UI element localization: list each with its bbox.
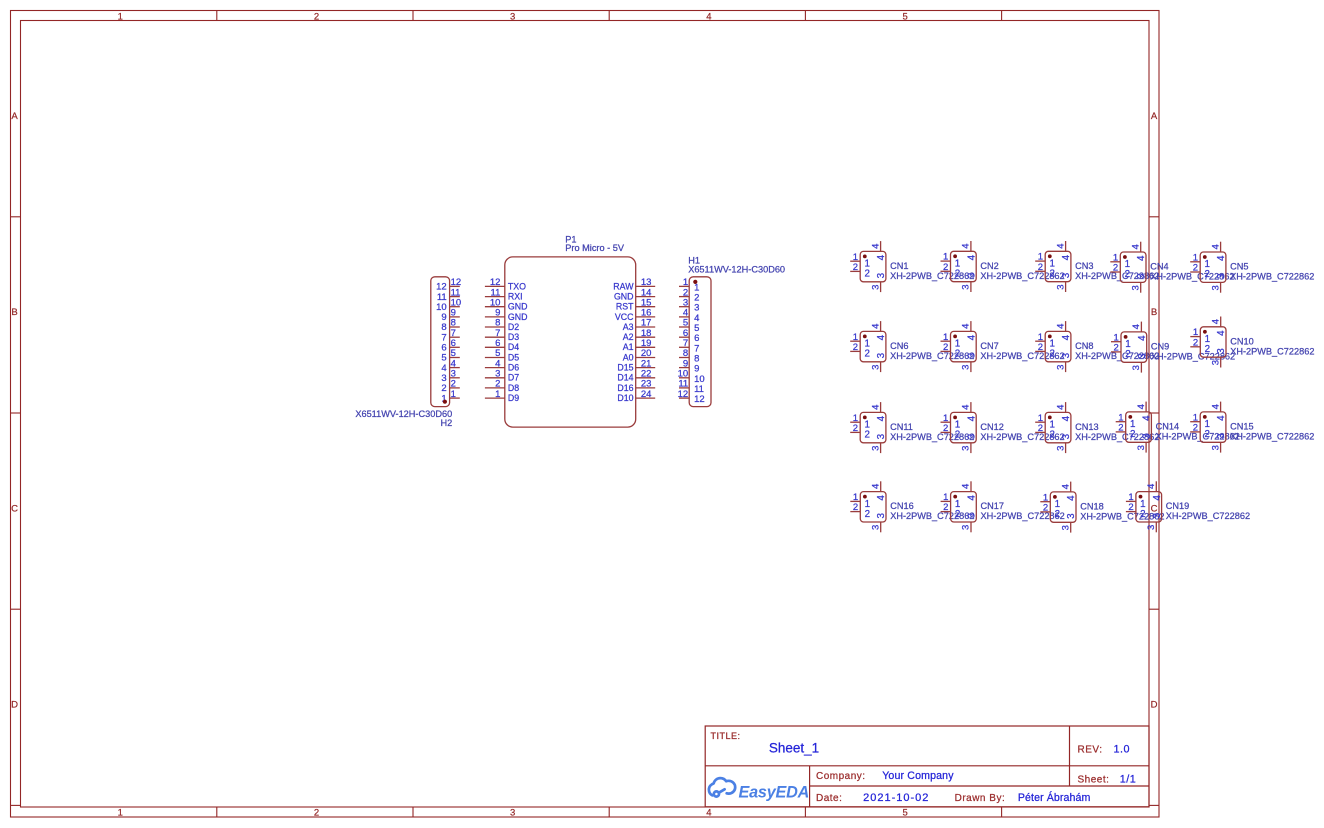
H1 body bbox=[689, 277, 711, 407]
svg-text:D5: D5 bbox=[508, 352, 519, 362]
connector CN5 (XH-2PWB_C722862) bbox=[1190, 242, 1314, 293]
P1 pin 6 (D4) wire, number and name bbox=[485, 346, 505, 348]
svg-text:D9: D9 bbox=[508, 393, 519, 403]
svg-text:Drawn By:: Drawn By: bbox=[955, 793, 1006, 804]
svg-text:CN14: CN14 bbox=[1156, 422, 1180, 432]
connector CN13 (XH-2PWB_C722862) bbox=[1035, 402, 1159, 453]
svg-text:5: 5 bbox=[902, 11, 907, 22]
P1 pin 3 (D7) wire, number and name bbox=[485, 377, 505, 379]
svg-text:A: A bbox=[11, 111, 18, 122]
svg-text:A: A bbox=[1151, 111, 1158, 122]
CN11 symbol bbox=[850, 402, 887, 453]
svg-text:3: 3 bbox=[510, 808, 515, 819]
svg-text:Sheet_1: Sheet_1 bbox=[769, 741, 819, 756]
EasyEDA logo bbox=[709, 778, 735, 797]
connector CN10 (XH-2PWB_C722862) bbox=[1190, 317, 1314, 368]
H2 pin 5 wire, number and name bbox=[450, 357, 460, 359]
H1 pin-1 marker dot bbox=[693, 280, 697, 284]
H1 pin 11 wire, number and name bbox=[679, 387, 689, 389]
svg-text:REV:: REV: bbox=[1078, 745, 1103, 756]
svg-text:XH-2PWB_C722862: XH-2PWB_C722862 bbox=[1230, 432, 1314, 442]
svg-text:XH-2PWB_C722862: XH-2PWB_C722862 bbox=[890, 271, 974, 281]
svg-text:D7: D7 bbox=[508, 373, 519, 383]
H1 pin 1 wire, number and name bbox=[679, 285, 689, 287]
svg-text:2: 2 bbox=[314, 808, 319, 819]
svg-text:2021-10-02: 2021-10-02 bbox=[863, 792, 929, 804]
svg-text:D3: D3 bbox=[508, 332, 519, 342]
CN9 symbol bbox=[1111, 322, 1148, 373]
CN18 symbol bbox=[1040, 482, 1077, 533]
svg-text:GND: GND bbox=[614, 292, 634, 302]
connector CN11 (XH-2PWB_C722862) bbox=[850, 402, 974, 453]
H1 pin 9 wire, number and name bbox=[679, 367, 689, 369]
svg-text:1: 1 bbox=[118, 808, 123, 819]
svg-text:4: 4 bbox=[706, 11, 711, 22]
P1 pin 5 (D5) wire, number and name bbox=[485, 357, 505, 359]
svg-text:CN11: CN11 bbox=[890, 422, 913, 432]
svg-text:CN19: CN19 bbox=[1166, 501, 1190, 511]
svg-text:A0: A0 bbox=[623, 352, 634, 362]
svg-text:B: B bbox=[11, 307, 17, 318]
CN7 symbol bbox=[941, 321, 978, 372]
IC P1 Pro Micro - 5V bbox=[485, 234, 655, 427]
CN2 symbol bbox=[941, 241, 978, 292]
H1 pin 3 wire, number and name bbox=[679, 306, 689, 308]
svg-text:RXI: RXI bbox=[508, 292, 523, 302]
svg-text:CN18: CN18 bbox=[1080, 502, 1104, 512]
connector H1 (X6511WV-12H-C30D60) bbox=[678, 255, 785, 406]
P1 pin 4 (D6) wire, number and name bbox=[485, 367, 505, 369]
svg-text:1/1: 1/1 bbox=[1120, 773, 1137, 785]
connector CN3 (XH-2PWB_C722862) bbox=[1035, 241, 1159, 292]
svg-text:A1: A1 bbox=[623, 342, 634, 352]
svg-text:1.0: 1.0 bbox=[1114, 744, 1131, 756]
P1 pin 9 (GND) wire, number and name bbox=[485, 316, 505, 318]
svg-text:RST: RST bbox=[616, 302, 634, 312]
connector CN18 (XH-2PWB_C722862) bbox=[1040, 482, 1164, 533]
svg-text:X6511WV-12H-C30D60: X6511WV-12H-C30D60 bbox=[688, 264, 785, 274]
svg-text:D6: D6 bbox=[508, 363, 519, 373]
svg-text:GND: GND bbox=[508, 302, 528, 312]
svg-text:CN5: CN5 bbox=[1230, 262, 1248, 272]
svg-text:XH-2PWB_C722862: XH-2PWB_C722862 bbox=[890, 351, 974, 361]
H1 pin 8 wire, number and name bbox=[679, 357, 689, 359]
CN10 symbol bbox=[1190, 317, 1227, 368]
connector CN2 (XH-2PWB_C722862) bbox=[941, 241, 1065, 292]
svg-text:A3: A3 bbox=[623, 322, 634, 332]
H1 pin 2 wire, number and name bbox=[679, 296, 689, 298]
svg-text:X6511WV-12H-C30D60: X6511WV-12H-C30D60 bbox=[355, 409, 452, 419]
connector CN9 (XH-2PWB_C722862) bbox=[1111, 322, 1235, 373]
CN6 symbol bbox=[850, 321, 887, 372]
svg-text:24: 24 bbox=[641, 389, 652, 400]
svg-text:1: 1 bbox=[451, 389, 456, 400]
P1 pin 19 (A1) wire, number and name bbox=[636, 346, 656, 348]
svg-text:D: D bbox=[1151, 700, 1158, 711]
svg-text:D4: D4 bbox=[508, 342, 519, 352]
connector CN6 (XH-2PWB_C722862) bbox=[850, 321, 974, 372]
P1 pin 16 (VCC) wire, number and name bbox=[636, 316, 656, 318]
H1 pin 10 wire, number and name bbox=[679, 377, 689, 379]
svg-text:D15: D15 bbox=[617, 363, 633, 373]
svg-text:D: D bbox=[11, 700, 18, 711]
svg-text:CN17: CN17 bbox=[981, 501, 1005, 511]
CN13 symbol bbox=[1035, 402, 1072, 453]
H1 pin 6 wire, number and name bbox=[679, 336, 689, 338]
svg-text:VCC: VCC bbox=[615, 312, 634, 322]
P1 pin 22 (D14) wire, number and name bbox=[636, 377, 656, 379]
svg-text:CN9: CN9 bbox=[1151, 342, 1169, 352]
H1 pin 4 wire, number and name bbox=[679, 316, 689, 318]
svg-text:12: 12 bbox=[694, 394, 705, 405]
connector CN7 (XH-2PWB_C722862) bbox=[941, 321, 1065, 372]
H2 pin 1 wire, number and name bbox=[450, 397, 460, 399]
svg-text:12: 12 bbox=[678, 389, 689, 400]
P1 pin 15 (RST) wire, number and name bbox=[636, 306, 656, 308]
P1 pin 13 (RAW) wire, number and name bbox=[636, 285, 656, 287]
svg-text:D10: D10 bbox=[617, 393, 633, 403]
svg-text:Sheet:: Sheet: bbox=[1078, 774, 1110, 785]
svg-text:4: 4 bbox=[706, 808, 711, 819]
connector CN17 (XH-2PWB_C722862) bbox=[941, 481, 1065, 532]
P1 pin 12 (TXO) wire, number and name bbox=[485, 285, 505, 287]
H1 pin 12 wire, number and name bbox=[679, 397, 689, 399]
svg-text:C: C bbox=[11, 503, 18, 514]
svg-text:XH-2PWB_C722862: XH-2PWB_C722862 bbox=[1166, 511, 1250, 521]
svg-text:XH-2PWB_C722862: XH-2PWB_C722862 bbox=[981, 511, 1065, 521]
H2 body bbox=[431, 277, 450, 407]
H2 pin 8 wire, number and name bbox=[450, 326, 460, 328]
H2 pin 2 wire, number and name bbox=[450, 387, 460, 389]
svg-text:XH-2PWB_C722862: XH-2PWB_C722862 bbox=[890, 432, 974, 442]
CN14 symbol bbox=[1116, 402, 1153, 453]
svg-text:CN1: CN1 bbox=[890, 261, 908, 271]
svg-text:1: 1 bbox=[495, 389, 500, 400]
connector CN19 (XH-2PWB_C722862) bbox=[1126, 481, 1250, 532]
svg-text:CN4: CN4 bbox=[1150, 262, 1168, 272]
svg-text:B: B bbox=[1151, 307, 1157, 318]
svg-text:TXO: TXO bbox=[508, 281, 526, 291]
svg-text:GND: GND bbox=[508, 312, 528, 322]
svg-text:3: 3 bbox=[510, 11, 515, 22]
CN8 symbol bbox=[1035, 321, 1072, 372]
frame column labels top bbox=[118, 11, 908, 22]
P1 pin 7 (D3) wire, number and name bbox=[485, 336, 505, 338]
P1 pin 20 (A0) wire, number and name bbox=[636, 357, 656, 359]
svg-text:CN6: CN6 bbox=[890, 341, 908, 351]
P1 pin 21 (D15) wire, number and name bbox=[636, 367, 656, 369]
CN17 symbol bbox=[941, 481, 978, 532]
H2 pin 3 wire, number and name bbox=[450, 377, 460, 379]
CN4 symbol bbox=[1110, 242, 1147, 293]
CN3 symbol bbox=[1035, 241, 1072, 292]
svg-text:XH-2PWB_C722862: XH-2PWB_C722862 bbox=[890, 511, 974, 521]
svg-text:CN10: CN10 bbox=[1230, 336, 1254, 346]
svg-text:Company:: Company: bbox=[816, 771, 866, 782]
P1 pin 11 (RXI) wire, number and name bbox=[485, 296, 505, 298]
connector CN14 (XH-2PWB_C722862) bbox=[1116, 402, 1240, 453]
H2 pin-1 marker dot bbox=[443, 400, 447, 404]
svg-text:D2: D2 bbox=[508, 322, 519, 332]
P1 pin 10 (GND) wire, number and name bbox=[485, 306, 505, 308]
svg-text:5: 5 bbox=[902, 808, 907, 819]
svg-text:Date:: Date: bbox=[816, 793, 842, 804]
P1 pin 14 (GND) wire, number and name bbox=[636, 296, 656, 298]
H2 pin 11 wire, number and name bbox=[450, 296, 460, 298]
title block bbox=[705, 726, 1149, 807]
H1 pin 5 wire, number and name bbox=[679, 326, 689, 328]
CN5 symbol bbox=[1190, 242, 1227, 293]
H2 pin 12 wire, number and name bbox=[450, 285, 460, 287]
svg-text:RAW: RAW bbox=[613, 281, 634, 291]
svg-text:EasyEDA: EasyEDA bbox=[739, 784, 810, 802]
H2 pin 7 wire, number and name bbox=[450, 336, 460, 338]
svg-text:XH-2PWB_C722862: XH-2PWB_C722862 bbox=[1230, 272, 1314, 282]
P1 pin 24 (D10) wire, number and name bbox=[636, 397, 656, 399]
svg-text:CN15: CN15 bbox=[1230, 422, 1254, 432]
connector CN16 (XH-2PWB_C722862) bbox=[850, 481, 974, 532]
svg-text:1: 1 bbox=[118, 11, 123, 22]
H2 pin 10 wire, number and name bbox=[450, 306, 460, 308]
connector CN8 (XH-2PWB_C722862) bbox=[1035, 321, 1159, 372]
svg-text:CN12: CN12 bbox=[980, 422, 1004, 432]
svg-text:D16: D16 bbox=[617, 383, 633, 393]
svg-text:D14: D14 bbox=[617, 373, 633, 383]
H2 pin 4 wire, number and name bbox=[450, 367, 460, 369]
P1 pin 2 (D8) wire, number and name bbox=[485, 387, 505, 389]
connector H2 (X6511WV-12H-C30D60) bbox=[355, 277, 461, 428]
svg-text:H2: H2 bbox=[440, 418, 452, 428]
connector CN12 (XH-2PWB_C722862) bbox=[941, 402, 1065, 453]
svg-text:CN8: CN8 bbox=[1075, 341, 1093, 351]
P1 pin 1 (D9) wire, number and name bbox=[485, 397, 505, 399]
frame row labels left bbox=[11, 111, 18, 711]
P1 pin 18 (A2) wire, number and name bbox=[636, 336, 656, 338]
connector CN4 (XH-2PWB_C722862) bbox=[1110, 242, 1234, 293]
CN19 symbol bbox=[1126, 481, 1163, 532]
svg-text:Your Company: Your Company bbox=[882, 770, 954, 782]
frame column labels bottom bbox=[118, 808, 908, 819]
svg-text:2: 2 bbox=[314, 11, 319, 22]
svg-text:CN13: CN13 bbox=[1075, 422, 1099, 432]
CN16 symbol bbox=[850, 481, 887, 532]
CN1 symbol bbox=[850, 241, 887, 292]
svg-text:CN7: CN7 bbox=[980, 341, 998, 351]
P1 pin 17 (A3) wire, number and name bbox=[636, 326, 656, 328]
svg-text:XH-2PWB_C722862: XH-2PWB_C722862 bbox=[1230, 346, 1314, 356]
svg-text:Pro Micro - 5V: Pro Micro - 5V bbox=[565, 243, 625, 253]
H2 pin 6 wire, number and name bbox=[450, 346, 460, 348]
svg-text:CN16: CN16 bbox=[890, 501, 914, 511]
svg-text:CN3: CN3 bbox=[1075, 261, 1093, 271]
P1 body bbox=[505, 257, 636, 427]
frame row labels right bbox=[1151, 111, 1158, 711]
CN15 symbol bbox=[1190, 402, 1227, 453]
P1 pin 8 (D2) wire, number and name bbox=[485, 326, 505, 328]
connector CN15 (XH-2PWB_C722862) bbox=[1190, 402, 1314, 453]
P1 pin 23 (D16) wire, number and name bbox=[636, 387, 656, 389]
connector CN1 (XH-2PWB_C722862) bbox=[850, 241, 974, 292]
svg-text:CN2: CN2 bbox=[980, 261, 998, 271]
svg-text:Péter Ábrahám: Péter Ábrahám bbox=[1018, 791, 1091, 804]
svg-text:D8: D8 bbox=[508, 383, 519, 393]
CN12 symbol bbox=[941, 402, 978, 453]
svg-text:TITLE:: TITLE: bbox=[711, 731, 741, 741]
H2 pin 9 wire, number and name bbox=[450, 316, 460, 318]
H1 pin 7 wire, number and name bbox=[679, 346, 689, 348]
svg-text:A2: A2 bbox=[623, 332, 634, 342]
